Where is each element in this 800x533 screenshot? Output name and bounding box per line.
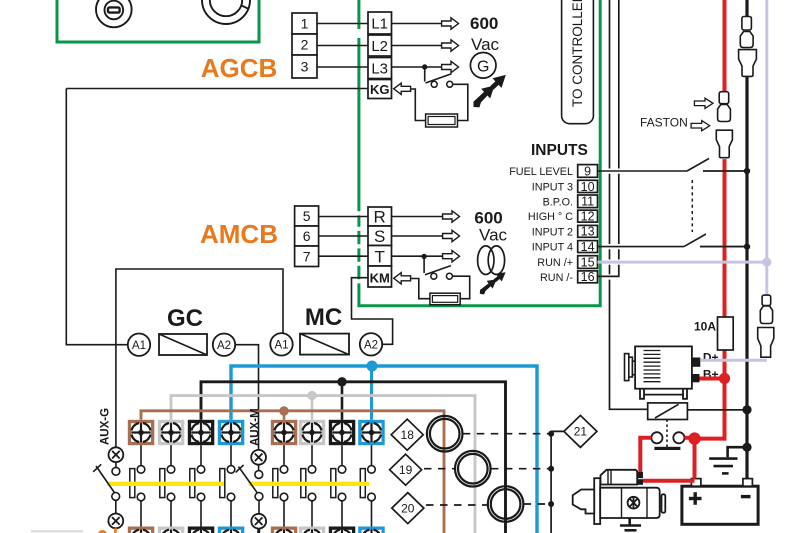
wire relay over red [687, 409, 747, 411]
wire KG feed [66, 88, 368, 90]
main contact MC-1 [273, 445, 288, 526]
svg-text:L3: L3 [371, 61, 388, 78]
arrow T [443, 251, 460, 262]
contactor MC coil [300, 334, 349, 355]
wire 2-L2 [317, 45, 368, 47]
svg-text:A1: A1 [132, 340, 146, 352]
svg-text:AUX-G: AUX-G [100, 408, 112, 445]
svg-text:13: 13 [581, 225, 595, 239]
main contact GC-2 [160, 445, 175, 526]
svg-text:MC: MC [305, 304, 342, 331]
terminal bottom GC-3 [188, 527, 215, 533]
current transformer [478, 246, 505, 275]
svg-text:19: 19 [399, 463, 413, 477]
lamp L20 [488, 486, 524, 522]
node relay-battery [742, 405, 751, 414]
terminal bottom GC-1 [128, 527, 155, 533]
controller wire B [598, 0, 619, 276]
svg-text:A2: A2 [364, 340, 378, 352]
input terminal 15 [578, 256, 598, 269]
faston female (lavender wire) [760, 295, 772, 323]
KM aux contact a [431, 273, 437, 279]
yellow link bus [107, 482, 224, 486]
starter dividers [608, 470, 647, 518]
AUX-G top lamp [109, 447, 124, 462]
diamond 18 [391, 419, 423, 450]
key socket [202, 0, 250, 24]
svg-text:INPUT 2: INPUT 2 [532, 226, 573, 238]
AUX-M bottom lamp [251, 514, 266, 529]
wire aux feed (inverted U) [116, 269, 283, 447]
svg-text:600: 600 [470, 14, 498, 33]
terminal top GC-1 brown [128, 420, 155, 445]
KM aux contact b [446, 273, 452, 279]
node 14-battery wire [744, 243, 750, 249]
breaker enclosure (green box AGCB/AMCB) [358, 0, 602, 306]
wire L3 out [392, 66, 442, 68]
KM aux switch blade [425, 266, 451, 275]
wire input 9 over red [703, 170, 747, 172]
svg-text:INPUTS: INPUTS [531, 142, 588, 159]
svg-text:RUN /+: RUN /+ [537, 257, 573, 269]
svg-text:B.P.O.: B.P.O. [543, 196, 573, 208]
pole KM [368, 266, 392, 287]
wire MC A2 to KM [352, 278, 393, 345]
svg-text:21: 21 [574, 425, 588, 439]
terminal bottom MC-3 [329, 527, 356, 533]
terminal top MC-1 brown [271, 420, 298, 445]
faston male (red wire) [716, 130, 732, 158]
node RUN/+ [762, 258, 771, 267]
starter motor [573, 470, 666, 524]
starter solenoid terminals [638, 472, 644, 478]
ignition wire (red) [723, 0, 727, 379]
wire GC A2 to AUX-M [235, 345, 258, 450]
wire relay to battery wire [687, 409, 747, 411]
input terminal 10 [578, 180, 598, 192]
contactor GC coil [159, 334, 207, 355]
pole L2 [368, 35, 392, 56]
generator symbol G [470, 53, 496, 79]
dashed link row 20 [426, 504, 488, 506]
node 9-battery wire [744, 168, 750, 174]
arrow L1 [442, 18, 459, 29]
dashed link row 18 [463, 433, 551, 435]
main contact MC-3 [331, 445, 346, 526]
terminal 3 [292, 55, 317, 78]
terminal 6 [295, 226, 319, 246]
node ground tap [742, 443, 751, 452]
AUX-G blade [96, 466, 115, 493]
main contact MC-2 [301, 445, 316, 526]
surge arrows (AGCB) [468, 70, 510, 111]
node T tap [421, 254, 426, 259]
faston male (lavender wire) [758, 328, 774, 358]
wire RUN/+ (lavender) [598, 261, 767, 264]
svg-text:A1: A1 [274, 340, 288, 352]
main contact GC-4 [220, 445, 235, 526]
svg-text:Vac: Vac [471, 35, 500, 54]
arrow into KG [394, 83, 411, 94]
terminal bottom MC-2 [299, 527, 326, 533]
arrow faston 2 [691, 121, 710, 131]
node B+ [719, 373, 730, 384]
AUX-M top lamp [251, 450, 266, 465]
node L3 tap [422, 64, 427, 69]
main contact GC-3 [190, 445, 205, 526]
ground (starter) [620, 518, 641, 530]
input4 switch blade [684, 234, 706, 247]
svg-text:INPUT 4: INPUT 4 [532, 242, 573, 254]
wire L1 out [392, 23, 442, 25]
pole S [368, 226, 392, 246]
svg-text:11: 11 [581, 195, 594, 209]
fuel switch blade [687, 159, 709, 172]
wire stub (orange) [114, 528, 117, 533]
wire 5-R [319, 216, 368, 218]
wire relay contacts to starter (red) [640, 379, 724, 481]
blue drop MC [370, 366, 373, 420]
terminal 5 [295, 206, 319, 226]
brown drop MC [283, 411, 286, 420]
wire R out [392, 216, 443, 218]
pole T [368, 246, 392, 267]
terminal 7 [295, 246, 319, 267]
wire input 14 over red [700, 246, 747, 248]
arrow L2 [442, 40, 459, 51]
contactor GC coil A2 [213, 334, 235, 356]
terminal bottom MC-4 [358, 527, 385, 533]
relay contact left [651, 432, 662, 443]
svg-text:1: 1 [301, 16, 309, 32]
svg-text:12: 12 [581, 209, 595, 223]
svg-text:15: 15 [581, 255, 595, 269]
lamp L18 [427, 416, 463, 452]
svg-text:AUX-M: AUX-M [250, 408, 262, 446]
main contact GC-1 [130, 445, 145, 526]
svg-text:20: 20 [401, 501, 415, 515]
arrow R [443, 211, 460, 222]
lamp L19 [455, 451, 491, 487]
terminal top GC-4 blue [218, 420, 245, 445]
input terminal 9 [578, 165, 598, 178]
main contact MC-4 [360, 445, 375, 526]
battery - symbol [741, 495, 751, 498]
brown pole bus [141, 411, 444, 533]
node gray [307, 391, 316, 400]
controller wire A [610, 0, 648, 409]
terminal bottom MC-1 [271, 527, 298, 533]
terminal top GC-3 black [188, 420, 215, 445]
svg-text:T: T [375, 248, 385, 267]
ground (battery) [709, 447, 747, 473]
pole L3 [368, 58, 392, 79]
svg-text:HIGH ° C: HIGH ° C [528, 211, 573, 223]
input terminal 16 [578, 271, 598, 283]
input terminal 11 [578, 195, 598, 208]
input terminal 14 [578, 241, 598, 253]
battery + symbol [689, 492, 702, 505]
svg-text:TO CONTROLLER: TO CONTROLLER [570, 0, 585, 107]
svg-text:KM: KM [370, 271, 390, 286]
panel enclosure (green) [57, 0, 259, 42]
dashed link row 19 [424, 468, 455, 470]
gray drop MC [311, 396, 314, 420]
svg-text:AGCB: AGCB [201, 53, 278, 83]
wire L2 out [392, 45, 442, 47]
terminal D+ [692, 358, 700, 367]
terminal bottom GC-2 [158, 527, 185, 533]
svg-text:A2: A2 [217, 340, 231, 352]
alternator fins [644, 351, 661, 382]
AUX-G bottom lamp [108, 514, 123, 529]
node blue [367, 361, 378, 372]
blue pole bus [231, 366, 537, 533]
svg-text:KG: KG [370, 82, 390, 97]
alternator body [635, 346, 692, 388]
terminal top MC-4 blue [358, 420, 385, 445]
alternator pulley [625, 354, 636, 381]
input terminal 13 [578, 225, 598, 237]
svg-text:5: 5 [303, 208, 311, 224]
terminal top MC-3 black [329, 420, 356, 445]
svg-text:3: 3 [301, 59, 309, 75]
node c20 [548, 501, 554, 507]
gray pole bus [171, 396, 475, 533]
svg-text:6: 6 [303, 228, 311, 244]
KG aux contact a [431, 81, 437, 87]
svg-text:FASTON: FASTON [640, 116, 688, 130]
relay bridge bar [654, 447, 680, 450]
node c19 [548, 466, 554, 472]
wire T out [392, 255, 443, 257]
node brown [279, 406, 288, 415]
wire B+ (red) [700, 377, 725, 381]
wire 1-L1 [317, 23, 368, 25]
diamond 20 [392, 493, 424, 524]
battery post + [691, 479, 701, 487]
svg-text:7: 7 [303, 249, 311, 265]
wire tap down [424, 67, 426, 82]
surge arrows (AMCB) [476, 268, 509, 296]
svg-text:2: 2 [301, 37, 309, 53]
wire resistor to KM [411, 279, 430, 299]
svg-text:10A: 10A [694, 320, 716, 334]
svg-text:INPUT 3: INPUT 3 [532, 182, 573, 194]
relay mechanical link [666, 420, 668, 448]
node c18 [548, 431, 554, 437]
wire D+ (lavender) [700, 359, 767, 362]
svg-text:RUN /-: RUN /- [540, 272, 573, 284]
wire contact to resistor [453, 84, 468, 120]
contactor GC coil A1 [128, 334, 150, 356]
wire stub AUX-M [257, 529, 260, 533]
svg-text:Vac: Vac [479, 226, 508, 245]
arrow into KM [394, 273, 411, 284]
input terminal 12 [578, 210, 598, 222]
battery [682, 486, 758, 524]
diamond 21 [564, 415, 597, 447]
collector wire to 21 [551, 431, 564, 533]
svg-text:L1: L1 [371, 16, 388, 33]
svg-text:14: 14 [581, 240, 595, 254]
starter motor symbol [628, 497, 640, 509]
wire stub (light gray) [31, 530, 83, 532]
wire 7-T [319, 255, 368, 257]
arrow faston 1 [694, 98, 713, 108]
mechanical link [691, 180, 693, 232]
svg-text:10: 10 [581, 180, 595, 194]
wire contact to resistor [452, 276, 469, 299]
contactor MC coil A1 [270, 333, 292, 355]
relay contact right [673, 432, 684, 443]
wire 3-L3 [317, 66, 368, 68]
arrow S [443, 230, 460, 241]
faston female (red wire) [718, 92, 731, 122]
terminal top GC-2 gray [158, 420, 185, 445]
node black [337, 377, 346, 386]
wire resistor to KG [411, 89, 426, 121]
AUX-M upper contact [258, 465, 260, 471]
svg-text:18: 18 [401, 428, 415, 442]
wire input 9 [598, 170, 688, 172]
svg-text:L2: L2 [371, 38, 388, 55]
terminal 2 [292, 34, 317, 55]
node orange [98, 530, 107, 533]
svg-text:9: 9 [584, 164, 591, 178]
black drop MC [341, 382, 344, 420]
diamond 19 [390, 454, 422, 485]
KG aux contact b [447, 81, 453, 87]
svg-text:D+: D+ [703, 351, 719, 365]
pole KG [368, 80, 392, 99]
svg-text:S: S [374, 227, 385, 246]
svg-text:AMCB: AMCB [200, 219, 278, 249]
KG aux switch blade [426, 74, 452, 83]
wire 6-S [319, 235, 368, 237]
fuse holder [96, 0, 132, 27]
AUX-M lower contact [255, 493, 263, 501]
resistor KG [426, 114, 458, 127]
AUX-M blade [239, 467, 258, 494]
svg-text:FUEL LEVEL: FUEL LEVEL [509, 166, 573, 178]
wire KG to GC A1 [66, 89, 128, 345]
wire S out [392, 235, 443, 237]
AUX-G upper contact [115, 462, 117, 467]
svg-text:16: 16 [581, 270, 595, 284]
terminal bottom GC-4 [218, 527, 245, 533]
battery post - [743, 479, 753, 487]
wire input 14 [598, 246, 685, 248]
wire tap down [423, 256, 425, 273]
battery negative wire (black) [745, 0, 748, 479]
pole L1 [368, 12, 392, 34]
faston female (black wire) [740, 17, 753, 48]
charge relay coil [648, 403, 688, 420]
resistor KM [430, 293, 460, 305]
arrow L3 [442, 61, 459, 72]
alternator feet [640, 389, 687, 399]
node starter feed [688, 432, 700, 444]
terminal 1 [292, 13, 317, 34]
terminal B+ [692, 374, 699, 382]
svg-text:R: R [374, 208, 386, 227]
excitation wire (lavender) vertical [765, 0, 768, 295]
pole R [368, 207, 392, 226]
terminal top MC-2 gray [299, 420, 326, 445]
black pole bus [201, 382, 506, 533]
AUX-G lower contact [112, 493, 120, 501]
fuse 10A [718, 317, 734, 350]
svg-text:G: G [477, 58, 489, 75]
contactor MC coil A2 [360, 333, 382, 355]
controller connector box [562, 0, 594, 124]
svg-text:GC: GC [167, 305, 203, 332]
faston male (black wire) [739, 50, 757, 77]
